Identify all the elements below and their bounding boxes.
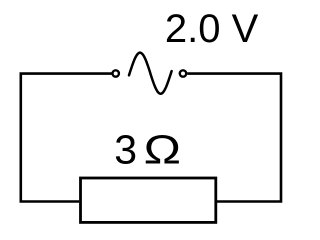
AC source V1 left terminal circle (113, 70, 119, 76)
wire right loop: top-right horizontal, right vertical, bottom-right horizontal (187, 74, 281, 202)
svg-text:2.0 V: 2.0 V (165, 7, 259, 51)
resistor R1 body (81, 178, 216, 222)
wire left loop: top-left horizontal, left vertical, bottom-left horizontal (21, 74, 112, 202)
AC source V1 right terminal circle (180, 70, 186, 76)
svg-text:Ω: Ω (144, 127, 181, 173)
AC source V1 sine wave (129, 53, 172, 94)
svg-text:3: 3 (114, 126, 137, 172)
